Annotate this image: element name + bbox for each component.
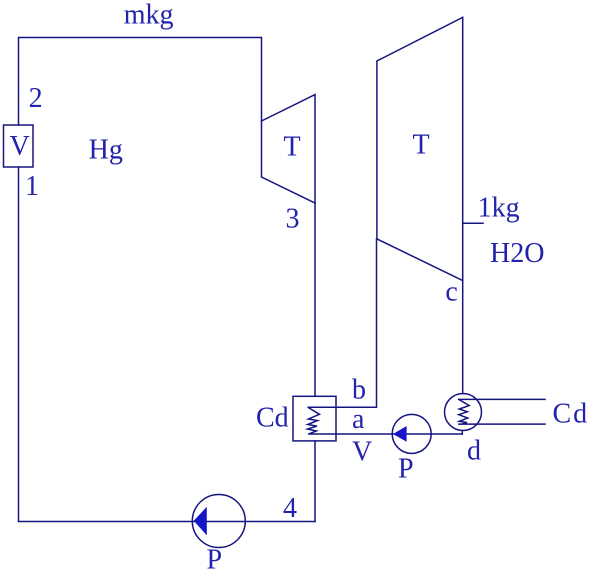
svg-text:4: 4 — [283, 493, 297, 524]
svg-text:H2O: H2O — [490, 238, 544, 269]
svg-text:Cd: Cd — [553, 399, 590, 430]
svg-text:Hg: Hg — [89, 135, 123, 166]
svg-text:P: P — [207, 545, 223, 574]
svg-text:2: 2 — [29, 83, 43, 114]
svg-text:a: a — [352, 404, 365, 435]
svg-text:T: T — [284, 132, 301, 163]
svg-text:V: V — [352, 437, 372, 468]
svg-text:P: P — [398, 453, 414, 484]
svg-text:V: V — [10, 131, 30, 162]
svg-text:Cd: Cd — [256, 403, 289, 434]
svg-text:mkg: mkg — [124, 0, 174, 31]
svg-text:3: 3 — [286, 203, 300, 234]
svg-text:1kg: 1kg — [478, 193, 520, 224]
svg-text:b: b — [352, 375, 366, 406]
svg-text:c: c — [445, 276, 457, 307]
svg-text:1: 1 — [25, 171, 39, 202]
svg-text:d: d — [467, 435, 481, 466]
svg-text:T: T — [413, 130, 430, 161]
